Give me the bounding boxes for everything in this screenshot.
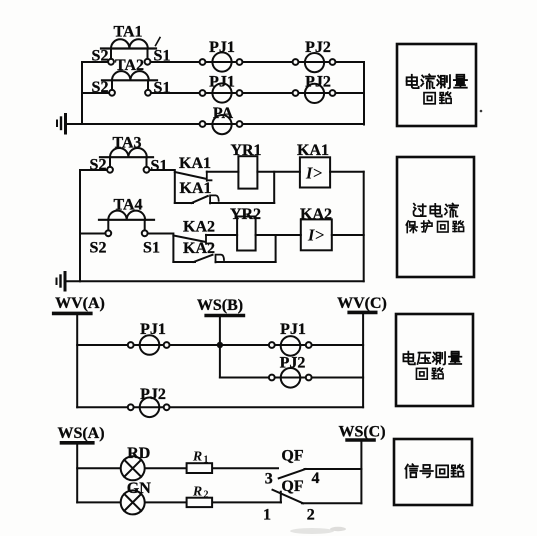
contact QF bottom blade [273,490,304,504]
meter PJ2 row1 [293,53,336,72]
svg-text:PA: PA [213,105,234,122]
wire row1 [82,61,108,63]
wire row2 [82,92,109,94]
wire QF top to WSC [305,468,362,470]
contact KA2 seal branch drop [172,236,174,263]
svg-text:TA4: TA4 [113,197,142,214]
wire row GN [77,501,281,503]
svg-text:WS(A): WS(A) [57,425,104,442]
wire seal branch 2 left [173,261,195,263]
text guo dian liu [414,204,459,217]
svg-text:PJ2: PJ2 [140,386,166,403]
wire row PJ2 voltage bottom [77,406,363,408]
wire seal branch 1 riser [273,172,275,203]
svg-text:KA2: KA2 [183,240,215,257]
wire right bus section1 [363,62,365,125]
svg-text:PJ2: PJ2 [305,74,331,91]
svg-text:TA1: TA1 [113,24,142,41]
box label signal circuit [394,439,472,505]
wire WS(B) drop [219,317,221,378]
wire YR2 to KA2 box [256,234,301,236]
meter PJ2 voltage right [269,368,312,388]
meter PA row3 [200,115,243,134]
text xin hao hui lu [405,464,463,478]
contact QF bottom hinge tick [280,492,282,503]
busbar WS(B) [206,314,243,318]
svg-text:GN: GN [127,480,151,497]
svg-text:S1: S1 [154,48,171,65]
svg-text:1: 1 [263,507,271,524]
svg-text:TA3: TA3 [112,135,141,152]
meter PJ2 voltage left [128,398,170,418]
svg-text:QF: QF [281,478,303,495]
svg-text:2: 2 [307,507,315,524]
svg-text:S2: S2 [92,48,109,65]
svg-text:WV(C): WV(C) [337,295,387,312]
wire row RD [77,467,278,469]
text hui lu box1 [424,92,451,104]
wire WS(C) drop [360,442,362,504]
svg-text:PJ2: PJ2 [305,39,331,56]
svg-text:RD: RD [127,445,150,462]
contact KA2 blade [173,236,205,242]
wire left bus section1 [81,62,83,124]
contact KA1 seal hook [210,195,219,203]
text dian ya ce liang [403,352,461,365]
wire KA2 box to bus [332,234,364,236]
speck [480,110,483,113]
busbar WS(C) [347,438,374,442]
svg-text:PJ1: PJ1 [280,321,306,338]
svg-text:S1: S1 [143,240,160,257]
lamp RD [121,456,145,480]
contact KA1 seal branch drop [174,172,176,203]
wire QF bottom to WSC [302,502,361,504]
svg-text:KA1: KA1 [180,180,212,197]
svg-text:PJ1: PJ1 [209,74,235,91]
meter PJ1 voltage left [128,335,170,355]
text bao hu hui lu [406,221,463,233]
transformer TA3 [100,148,153,173]
svg-text:WS(B): WS(B) [197,297,243,314]
relay coil YR1 [238,156,257,188]
ground 2 [57,273,66,291]
busbar WV(C) [349,311,376,315]
wire seal branch 2 riser [275,235,277,262]
wire TA4 row [80,233,105,235]
svg-text:KA1: KA1 [179,155,211,172]
relay KA2 box [301,219,332,250]
contact KA2 seal hook [216,255,225,263]
busbar WV(A) [54,312,91,316]
svg-text:WV(A): WV(A) [55,295,105,312]
resistor R2 [187,498,213,507]
resistor R1 [187,463,213,473]
lamp GN [121,490,145,514]
text dian liu ce liang [407,74,467,88]
busbar WS(A) [62,441,93,445]
svg-text:R: R [192,450,202,465]
svg-text:PJ1: PJ1 [209,39,235,56]
contact KA1 blade [175,172,206,179]
current mark i [156,38,161,46]
svg-text:KA2: KA2 [183,219,215,236]
svg-text:3: 3 [265,470,273,487]
wire TA3 row [80,169,107,171]
wire KA1 box to bus [330,171,364,173]
svg-text:I>: I> [307,226,325,245]
relay KA1 box [300,157,330,187]
wire seal branch 2 right [216,261,276,263]
meter PJ1 row1 [200,52,243,71]
svg-text:QF: QF [281,448,303,465]
transformer TA1 [101,39,156,64]
svg-text:1: 1 [204,455,209,466]
speck [290,528,334,534]
svg-text:S1: S1 [151,158,168,175]
meter PJ1 row2 [200,83,243,102]
wire WS(B) to PJ2 [220,377,272,379]
wire row TA3 to YR1 [207,171,239,173]
svg-text:KA1: KA1 [297,142,329,159]
transformer TA2 [102,71,157,96]
wire WS(A) drop [76,444,78,502]
box label current-measurement circuit [397,44,476,126]
junction node WSB-PJ1 [217,342,223,348]
ground [57,115,66,134]
wire ground row3 [66,123,365,125]
meter PJ1 voltage right [269,336,312,356]
box label voltage-measurement circuit [396,314,473,406]
svg-text:4: 4 [312,470,320,487]
wire WV(A) drop [76,315,78,407]
wire ground row section2 [65,280,364,282]
contact KA2 fixed tick [206,235,211,244]
svg-text:S2: S2 [90,157,107,174]
box label overcurrent-protection circuit [397,157,474,277]
wire seal branch 1 left [175,202,193,204]
svg-text:KA2: KA2 [300,206,332,223]
transformer TA4 [99,211,154,237]
wire row PJ2 voltage right [272,377,363,379]
svg-text:YR2: YR2 [230,206,261,223]
contact KA2 seal blade [194,255,213,262]
svg-text:2: 2 [204,490,209,501]
contact KA1 seal blade [192,196,208,203]
wire YR1 to KA1 box [257,171,300,173]
text hui lu box3 [416,368,443,379]
wire row TA4 to YR2 [206,234,237,236]
svg-text:TA2: TA2 [115,57,144,74]
svg-text:PJ2: PJ2 [280,355,306,372]
svg-text:WS(C): WS(C) [338,424,385,441]
svg-text:S2: S2 [90,240,107,257]
contact QF top blade [279,469,306,478]
svg-text:PJ1: PJ1 [140,321,166,338]
wire right bus section2 [363,172,365,281]
wire left bus section2 [79,170,81,281]
wire WV(C) drop [362,314,364,407]
meter PJ2 row2 [293,84,336,103]
contact KA1 fixed tick [207,172,212,181]
svg-text:I>: I> [305,164,323,183]
relay coil YR2 [237,217,256,251]
svg-text:R: R [192,485,202,500]
wire seal branch 1 right [210,202,274,204]
svg-text:YR1: YR1 [230,142,261,159]
wire row PJ1 voltage [77,344,363,346]
